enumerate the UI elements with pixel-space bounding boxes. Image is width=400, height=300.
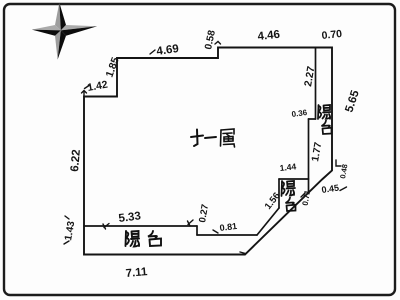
svg-text:4.46: 4.46 — [257, 29, 281, 43]
svg-text:6.22: 6.22 — [69, 149, 83, 172]
main outline — [84, 48, 332, 255]
0.36 jog — [309, 118, 316, 120]
0.81 edge — [197, 234, 257, 236]
十 — [191, 136, 203, 138]
inner diagonal 1.56 — [257, 208, 279, 235]
層 — [221, 129, 235, 147]
small balcony left wall — [278, 179, 280, 208]
svg-text:1.43: 1.43 — [63, 220, 77, 242]
台 — [322, 121, 330, 128]
svg-text:0.36: 0.36 — [291, 108, 308, 119]
svg-text:0.70: 0.70 — [321, 28, 343, 42]
svg-text:7.11: 7.11 — [125, 266, 148, 280]
CJK: bottom balcony 陽 台 — [126, 231, 162, 247]
balcony interior walls — [84, 48, 316, 235]
S point — [55, 30, 61, 59]
svg-text:0.45: 0.45 — [321, 183, 340, 195]
svg-text:0.71: 0.71 — [301, 189, 313, 206]
svg-text:0.58: 0.58 — [203, 29, 218, 51]
CJK: right balcony 陽台 (vertical) — [318, 105, 332, 134]
step 0.27 — [196, 226, 198, 235]
2.27 wall — [315, 48, 317, 119]
台 — [286, 198, 294, 205]
svg-text:0.48: 0.48 — [338, 163, 349, 179]
svg-text:1.44: 1.44 — [279, 161, 297, 173]
dimension labels — [63, 28, 362, 280]
svg-text:5.33: 5.33 — [118, 210, 142, 225]
W point — [32, 25, 61, 30]
svg-text:0.81: 0.81 — [219, 221, 238, 233]
svg-text:1.77: 1.77 — [310, 141, 324, 163]
svg-text:5.65: 5.65 — [343, 88, 362, 114]
陽 — [317, 105, 320, 119]
N point — [55, 3, 61, 31]
一 — [205, 137, 216, 138]
陽 — [125, 231, 128, 246]
dimension tick marks — [64, 42, 347, 254]
CJK: small balcony 陽台 (vertical) — [282, 181, 296, 211]
bottom balcony top edge 5.33 — [84, 225, 197, 227]
svg-text:4.69: 4.69 — [156, 43, 180, 58]
CJK: 十一層 (11th floor) hand-drawn — [191, 129, 235, 147]
陽 — [281, 181, 284, 196]
E point — [61, 25, 97, 30]
台 — [148, 231, 157, 238]
compass rose — [32, 3, 97, 60]
1.44 edge — [279, 178, 309, 180]
svg-text:1.42: 1.42 — [86, 79, 108, 94]
svg-text:0.27: 0.27 — [197, 203, 211, 223]
svg-text:1.85: 1.85 — [104, 56, 122, 79]
1.77 + 0.71 wall — [308, 119, 310, 194]
